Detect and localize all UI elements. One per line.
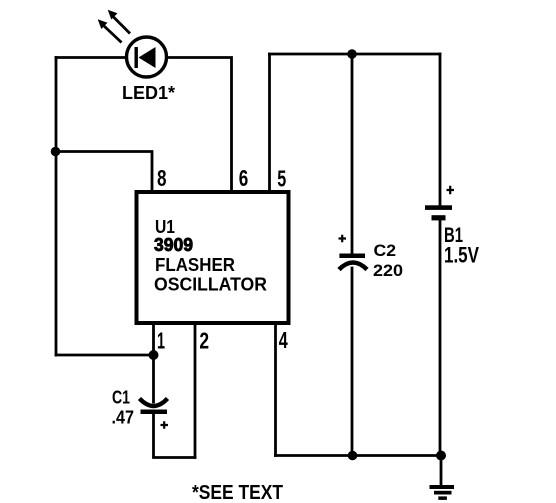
wire LED anode to left corner bbox=[56, 56, 125, 59]
wire C1 bottom to pin 2 bbox=[154, 413, 196, 458]
wire bottom-left horizontal to C1 node bbox=[56, 354, 154, 357]
wire C2 bottom vertical bbox=[351, 268, 354, 456]
wire ground stub bbox=[440, 456, 443, 487]
wire pin 2 vertical bbox=[194, 324, 197, 458]
wire pin 5 vertical bbox=[268, 54, 271, 191]
svg-text:1.5V: 1.5V bbox=[444, 243, 479, 268]
battery B1 bbox=[425, 186, 479, 268]
svg-text:8: 8 bbox=[157, 165, 167, 191]
svg-text:C1: C1 bbox=[112, 388, 130, 408]
node B (pin1/C1 junction) bbox=[149, 350, 159, 360]
wire pin 1 to C1 bbox=[152, 324, 155, 402]
svg-text:C2: C2 bbox=[374, 242, 397, 260]
svg-text:1: 1 bbox=[157, 328, 165, 354]
node C (top rail / C2) bbox=[347, 49, 357, 59]
svg-text:OSCILLATOR: OSCILLATOR bbox=[154, 274, 267, 295]
capacitor C1 bbox=[112, 388, 169, 429]
svg-text:*SEE TEXT: *SEE TEXT bbox=[192, 482, 283, 503]
svg-text:5: 5 bbox=[277, 166, 286, 192]
wire pin 4 vertical bbox=[274, 324, 277, 456]
svg-text:6: 6 bbox=[239, 165, 249, 191]
LED LED1 bbox=[98, 10, 175, 103]
wire C2 top vertical bbox=[351, 54, 354, 254]
svg-text:4: 4 bbox=[279, 327, 288, 353]
svg-text:FLASHER: FLASHER bbox=[155, 254, 235, 275]
ground bbox=[430, 485, 455, 500]
wire LED cathode to pin 6 bbox=[168, 58, 232, 192]
svg-text:.47: .47 bbox=[112, 408, 135, 428]
svg-text:2: 2 bbox=[199, 328, 209, 354]
wire B1 bottom vertical bbox=[439, 220, 442, 456]
wire node A to pin 8 bbox=[55, 152, 152, 192]
capacitor C2 bbox=[339, 235, 404, 280]
wire B1 top vertical bbox=[439, 54, 442, 206]
wire top rail bbox=[270, 53, 441, 56]
wire bottom rail bbox=[276, 454, 442, 457]
node E (bottom rail / B1 / ground) bbox=[436, 451, 446, 461]
svg-text:LED1*: LED1* bbox=[122, 83, 175, 103]
op-amp U1 (IC box) bbox=[137, 192, 289, 323]
svg-text:3909: 3909 bbox=[154, 234, 193, 255]
wire left vertical bbox=[55, 58, 58, 356]
node D (bottom rail / C2) bbox=[348, 451, 358, 461]
node A (left wire junction) bbox=[51, 147, 61, 157]
svg-text:220: 220 bbox=[373, 261, 403, 280]
